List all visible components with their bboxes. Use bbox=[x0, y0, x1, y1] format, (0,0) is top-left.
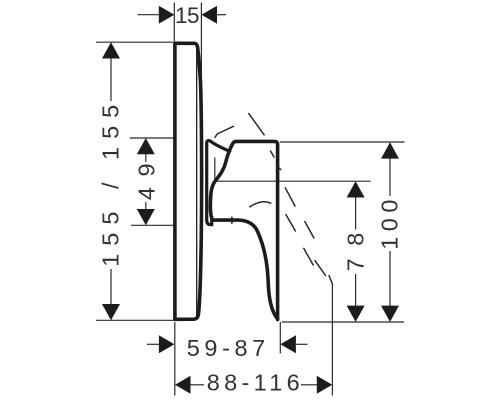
svg-text:88-116: 88-116 bbox=[207, 370, 304, 396]
svg-text:155 / 155: 155 / 155 bbox=[98, 97, 124, 267]
svg-text:49: 49 bbox=[133, 153, 159, 200]
svg-text:15: 15 bbox=[175, 3, 199, 28]
svg-text:59-87: 59-87 bbox=[187, 335, 270, 361]
svg-text:78: 78 bbox=[343, 220, 369, 271]
svg-text:100: 100 bbox=[376, 194, 402, 250]
